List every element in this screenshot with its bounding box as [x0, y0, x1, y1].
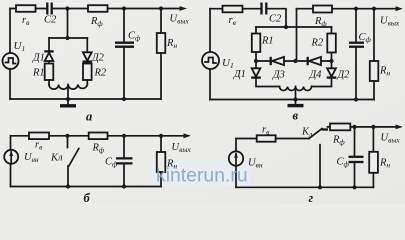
wire bottom rail g: [236, 186, 373, 188]
inductor L v: [280, 87, 312, 91]
node center tap bottom v: [293, 97, 297, 101]
wire top rail v left: [210, 9, 286, 27]
wire switch lower contact g: [319, 145, 321, 188]
node C2-Rf junction: [65, 6, 69, 10]
svg-text:С2: С2: [44, 15, 57, 26]
node diode rail right: [329, 59, 333, 63]
node Cf bottom v: [354, 97, 358, 101]
resistor Rn v: [370, 9, 379, 100]
node Cf bottom g: [352, 185, 356, 189]
svg-text:R1: R1: [261, 36, 274, 47]
capacitor Cf b: [116, 136, 133, 187]
node Rn top v: [372, 7, 376, 11]
wire R1R2 rail v: [256, 26, 332, 28]
svg-text:Кл: Кл: [50, 153, 63, 164]
capacitor Cf g: [349, 127, 364, 187]
svg-text:в: в: [293, 109, 299, 123]
svg-text:kinterun.ru: kinterun.ru: [156, 165, 248, 187]
resistor R1: [45, 61, 54, 85]
capacitor C2 v: [262, 3, 267, 15]
ground v: [288, 100, 304, 106]
resistor R2: [83, 63, 92, 85]
wire center tap v: [295, 87, 297, 100]
diode D2: [83, 52, 93, 61]
arrow output g: [396, 125, 404, 130]
wire to D1: [48, 38, 50, 51]
svg-text:Д1: Д1: [233, 69, 246, 80]
wire top rail v right: [297, 8, 398, 10]
svg-text:R2: R2: [311, 38, 324, 49]
node Rn top b: [159, 134, 163, 138]
capacitor Cf branch a: [115, 9, 134, 100]
switch Kl b: [68, 136, 79, 187]
svg-text:Д2: Д2: [91, 53, 105, 64]
arrow output a: [180, 6, 188, 11]
wire top rail g left: [236, 138, 309, 140]
node center tap bottom a: [66, 97, 70, 101]
resistor Rf g: [330, 124, 350, 131]
svg-text:R2: R2: [94, 68, 107, 79]
resistor Rn a: [157, 9, 166, 100]
wire top rail b: [11, 135, 185, 137]
resistor Rf v: [313, 6, 332, 13]
wire left vertical v: [209, 9, 211, 100]
source Uvn g: [229, 151, 243, 165]
arrow output b: [184, 133, 192, 138]
wire bottom rail v: [210, 99, 374, 101]
svg-text:С2: С2: [269, 14, 282, 25]
diode D2 v: [312, 61, 337, 87]
svg-text:а: а: [86, 110, 92, 124]
node diode rail left: [254, 59, 258, 63]
svg-text:б: б: [84, 191, 91, 204]
wire top rail a: [10, 8, 181, 10]
switch Kl g contact: [322, 128, 329, 130]
watermark background box: [151, 161, 251, 186]
svg-text:R1: R1: [32, 68, 45, 79]
source U1 v: [202, 52, 219, 69]
resistor R2 v: [327, 27, 336, 61]
diode D4: [308, 57, 321, 65]
inductor L a: [49, 85, 87, 90]
wire left vertical a: [9, 9, 11, 100]
resistor Rn b: [157, 136, 166, 187]
svg-text:Д4: Д4: [309, 70, 323, 81]
node Cf top b: [122, 134, 126, 138]
wire left vertical g: [235, 139, 237, 188]
wire bridge drop a: [67, 9, 69, 39]
capacitor C2: [47, 3, 51, 15]
ground a: [60, 99, 76, 106]
node Cf junction top: [122, 6, 126, 10]
svg-text:Д3: Д3: [272, 70, 285, 81]
node switch bottom g: [318, 185, 322, 189]
resistor Rn g: [369, 127, 378, 187]
svg-text:Д1: Д1: [32, 53, 45, 64]
wire mid vertical v: [296, 9, 298, 61]
switch Kl g blade: [309, 129, 322, 139]
diode D1: [44, 51, 53, 61]
source U1: [3, 53, 19, 69]
svg-text:Д2: Д2: [337, 70, 351, 81]
node diode rail mid: [293, 59, 297, 63]
node Cf top v: [354, 7, 358, 11]
arrow output v: [396, 6, 404, 11]
wire to D2: [86, 38, 88, 52]
node switch top b: [65, 134, 69, 138]
source Uvn b: [4, 150, 18, 164]
node Cf top g: [352, 125, 356, 129]
diode D3: [271, 57, 284, 65]
wire left vertical b: [10, 136, 12, 187]
node Cf bottom a: [122, 97, 126, 101]
node Rn top g: [371, 125, 375, 129]
node Cf bottom b: [122, 184, 126, 188]
node C2 drop v: [284, 25, 288, 29]
wire center tap a: [67, 85, 69, 100]
resistor Rf b: [89, 133, 108, 140]
wire bridge rail a: [49, 37, 87, 39]
resistor R1 v: [252, 27, 260, 61]
resistor Rf: [88, 5, 108, 12]
wire top rail g right: [328, 126, 398, 128]
node switch bottom b: [66, 184, 70, 188]
resistor rv g: [257, 135, 276, 141]
node bridge center a: [65, 36, 69, 40]
wire bottom rail a: [10, 98, 161, 100]
wire bottom rail b: [11, 186, 162, 188]
svg-text:г: г: [309, 191, 314, 204]
diode D1 v: [251, 61, 279, 87]
resistor rv v: [223, 6, 243, 13]
node Rn junction top: [159, 6, 163, 10]
capacitor Cf v: [349, 9, 364, 100]
resistor rv b: [29, 133, 49, 140]
resistor rv: [16, 5, 36, 12]
wire diode rail v: [256, 60, 332, 62]
